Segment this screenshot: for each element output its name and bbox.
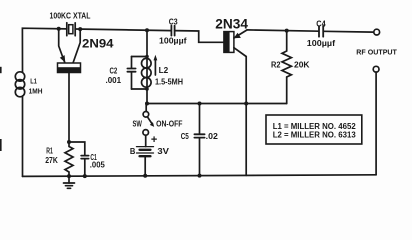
transistor Q1 2N94 base bar [58, 63, 81, 73]
node C1 bottom [83, 174, 87, 178]
svg-text:.02: .02 [206, 131, 218, 141]
wire bottom rail [23, 175, 377, 177]
node R1 bottom [67, 174, 71, 178]
capacitor C2 .001 [127, 57, 135, 90]
terminal RF output return [373, 66, 379, 72]
wire C4 to output terminal [323, 30, 374, 33]
transistor Q1 2N94 emitter arrow [60, 55, 66, 63]
resistor R1 27K [65, 142, 73, 176]
crystal Y1 100KC XTAL [67, 23, 75, 36]
transistor Q2 2N34 base bar [224, 32, 234, 53]
svg-text:C4: C4 [316, 18, 326, 28]
wire to C1 [69, 142, 85, 155]
svg-text:100KC XTAL: 100KC XTAL [50, 11, 91, 21]
svg-text:.005: .005 [90, 161, 106, 170]
svg-text:L2 = MILLER NO. 6313: L2 = MILLER NO. 6313 [273, 130, 357, 139]
node C5 bottom [198, 174, 202, 178]
resistor R2 20K [282, 31, 291, 77]
capacitor C3 [171, 26, 174, 36]
battery B 3V [137, 135, 154, 176]
inductor L1 1MH [15, 72, 24, 97]
svg-text:C5: C5 [181, 131, 189, 141]
wire collector vertical [245, 57, 247, 176]
svg-text:100µµf: 100µµf [307, 38, 335, 48]
svg-text:ON-OFF: ON-OFF [156, 118, 182, 128]
svg-text:C3: C3 [169, 17, 178, 27]
svg-text:R2: R2 [271, 60, 281, 70]
wire C3 to base corner [175, 31, 224, 43]
wire top rail crystal to C3 [75, 29, 171, 31]
wire R2 branch [286, 77, 288, 104]
wire tank bottom bar [132, 88, 148, 90]
node R2 top [285, 29, 289, 33]
svg-text:.001: .001 [106, 76, 122, 85]
svg-text:2N94: 2N94 [82, 39, 114, 51]
node C5 top [198, 102, 202, 106]
wire 2N94 collector drop [73, 29, 80, 63]
svg-text:+: + [151, 134, 157, 146]
svg-text:C2: C2 [110, 67, 118, 76]
svg-text:R1: R1 [46, 147, 53, 156]
svg-text:100µµf: 100µµf [159, 36, 187, 46]
transistor Q2 collector [234, 48, 246, 57]
capacitor C4 100uuf [319, 26, 323, 37]
svg-text:RF OUTPUT: RF OUTPUT [356, 47, 397, 56]
svg-text:L1: L1 [30, 77, 37, 86]
L2 adjustable arrow [154, 55, 158, 75]
ground [64, 176, 75, 188]
svg-text:3V: 3V [157, 146, 169, 156]
wire mid horizontal [147, 103, 287, 105]
capacitor C5 .02 [194, 104, 204, 176]
svg-text:1.5-5MH: 1.5-5MH [155, 77, 183, 87]
node base/R1/C1 [67, 140, 71, 144]
inductor L2 1.5-5MH [142, 58, 152, 87]
switch SW ON-OFF [143, 104, 154, 136]
capacitor C1 .005 [81, 156, 88, 159]
node collector mid wire [244, 102, 248, 106]
node crystal left [57, 27, 61, 31]
node crystal right [78, 27, 82, 31]
svg-text:SW: SW [133, 118, 143, 128]
wire base lead down [68, 73, 70, 143]
node battery bottom [143, 174, 147, 178]
node mid wire left [145, 102, 149, 106]
node tank top rail [145, 28, 149, 32]
wire top rail left segment [22, 28, 66, 72]
svg-text:L2: L2 [159, 65, 169, 75]
left edge mark 2 [0, 139, 2, 151]
node tank top [145, 55, 149, 59]
wire mid vertical (tank) [146, 30, 148, 103]
wire 2N94 emitter drop [59, 29, 65, 63]
svg-text:1MH: 1MH [29, 86, 43, 95]
left edge mark 1 [0, 67, 2, 73]
transistor Q2 emitter with arrow [234, 30, 248, 38]
wire L1 to bottom rail [22, 96, 24, 176]
label box border [266, 115, 362, 144]
svg-text:27K: 27K [45, 156, 58, 165]
svg-text:B: B [130, 146, 136, 156]
wire tank top bar [132, 56, 148, 58]
wire C1 to bottom rail [84, 159, 86, 176]
node tank bottom [145, 87, 149, 91]
svg-text:20K: 20K [294, 60, 310, 70]
svg-text:2N34: 2N34 [215, 17, 248, 32]
wire emitter rail to C4 [247, 30, 319, 31]
wire return terminal to bottom rail [375, 72, 377, 175]
terminal RF output hot [374, 29, 380, 35]
